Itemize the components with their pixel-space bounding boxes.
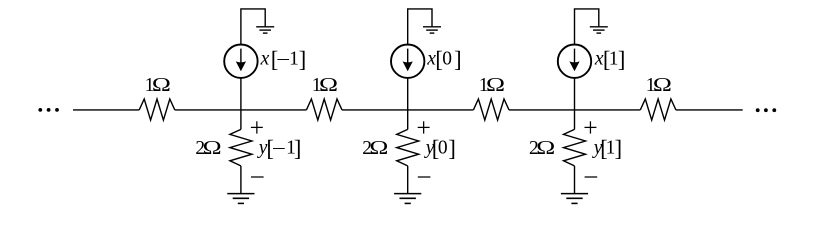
svg-text:1Ω: 1Ω <box>312 75 338 96</box>
wire: current source column 2 to node <box>407 78 409 110</box>
left ellipsis dots (continuation) <box>38 108 42 112</box>
current source x[-1] arrow (downward) <box>240 49 242 64</box>
svg-text:1Ω: 1Ω <box>145 75 171 96</box>
resistor R3 1-ohm (series, horizontal) <box>473 99 509 120</box>
current source x[0] circle <box>391 45 424 78</box>
label x[-1] <box>260 47 307 72</box>
svg-text:1Ω: 1Ω <box>479 75 505 96</box>
svg-text:1Ω: 1Ω <box>646 75 672 96</box>
minus sign of voltage y[0] <box>418 176 431 178</box>
svg-text:−: − <box>272 139 286 160</box>
svg-text:0: 0 <box>438 138 448 159</box>
svg-text:2Ω: 2Ω <box>195 138 221 159</box>
resistor 2-ohm (shunt, vertical) column 3 <box>564 129 586 166</box>
wire: shunt resistor column 1 to bottom ground <box>240 166 242 194</box>
wire: shunt resistor column 3 to bottom ground <box>574 166 576 194</box>
wire: main horizontal line segments <box>73 109 139 111</box>
node column 2: wire down to shunt resistor <box>407 110 409 129</box>
resistor 2-ohm (shunt, vertical) column 2 <box>397 129 419 166</box>
top ground symbol column 3 <box>590 27 608 33</box>
wire: current source column 1 to node <box>240 78 242 110</box>
plus sign of voltage y[1] <box>585 121 597 133</box>
top ground symbol column 2 <box>423 27 441 33</box>
wire: current source column 3 to node <box>574 78 576 110</box>
svg-text:]: ] <box>294 136 302 161</box>
minus sign of voltage y[1] <box>585 176 598 178</box>
node column 3: wire down to shunt resistor <box>574 110 576 129</box>
svg-text:0: 0 <box>442 49 452 70</box>
svg-text:2Ω: 2Ω <box>362 138 388 159</box>
node column 1: wire down to shunt resistor <box>240 110 242 129</box>
current source x[1] arrow (downward) <box>574 49 576 64</box>
wire: top hook from current source column 2 to its ground <box>408 9 432 44</box>
plus sign of voltage y[0] <box>418 121 430 133</box>
svg-text:]: ] <box>299 47 307 72</box>
svg-text:2Ω: 2Ω <box>529 138 555 159</box>
label x[1] <box>594 47 625 72</box>
plus sign of voltage y[-1] <box>251 121 263 133</box>
svg-text:]: ] <box>615 136 623 161</box>
wire: shunt resistor column 2 to bottom ground <box>407 166 409 194</box>
right ellipsis dots (continuation) <box>756 108 760 112</box>
svg-text:]: ] <box>448 136 456 161</box>
wire: top hook from current source column 3 to its ground <box>575 9 599 44</box>
top ground symbol column 1 <box>256 27 274 33</box>
resistor R4 1-ohm (series, horizontal) <box>640 99 676 120</box>
bottom ground symbol column 2 <box>394 194 421 204</box>
bottom ground symbol column 3 <box>561 194 588 204</box>
minus sign of voltage y[-1] <box>251 176 264 178</box>
current source x[1] circle <box>558 45 591 78</box>
label x[0] <box>426 47 461 72</box>
label y[1] <box>592 136 622 161</box>
resistor 2-ohm (shunt, vertical) column 1 <box>230 129 252 166</box>
wire: top hook from current source column 1 to its ground <box>241 9 265 44</box>
bottom ground symbol column 1 <box>227 194 254 204</box>
resistor R1 1-ohm (series, horizontal) <box>139 99 175 120</box>
current source x[-1] circle <box>224 45 257 78</box>
svg-text:1: 1 <box>289 49 299 70</box>
resistor R2 1-ohm (series, horizontal) <box>306 99 342 120</box>
current source x[0] arrow (downward) <box>407 49 409 64</box>
label y[0] <box>424 136 456 161</box>
svg-text:x: x <box>260 49 270 70</box>
svg-text:]: ] <box>618 47 626 72</box>
label y[-1] <box>257 136 302 161</box>
svg-text:]: ] <box>454 47 462 72</box>
